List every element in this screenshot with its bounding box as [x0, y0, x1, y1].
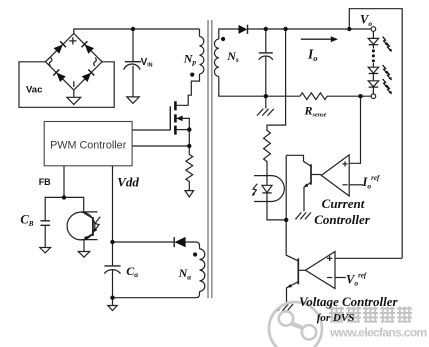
svg-text:for DVS: for DVS [317, 312, 355, 324]
svg-text:Vo: Vo [360, 13, 372, 28]
svg-text:Voref: Voref [346, 272, 367, 288]
svg-text:Np: Np [183, 51, 197, 66]
svg-text:Vdd: Vdd [117, 174, 139, 189]
svg-text:PWM Controller: PWM Controller [50, 140, 127, 152]
svg-text:Controller: Controller [314, 212, 371, 227]
svg-text:VIN: VIN [141, 57, 153, 69]
svg-text:Na: Na [178, 266, 192, 281]
svg-text:FB: FB [39, 177, 51, 187]
svg-text:CB: CB [20, 213, 33, 228]
svg-text:Ns: Ns [226, 49, 239, 64]
svg-text:www.elecfans.com: www.elecfans.com [329, 325, 427, 339]
svg-text:Vac: Vac [26, 84, 42, 95]
svg-text:Rsense: Rsense [304, 103, 327, 118]
svg-text:Current: Current [322, 196, 365, 211]
svg-text:Voltage Controller: Voltage Controller [299, 294, 399, 309]
svg-text:Ioref: Ioref [362, 174, 380, 190]
svg-text:Ca: Ca [126, 264, 138, 279]
svg-text:Io: Io [307, 47, 318, 63]
